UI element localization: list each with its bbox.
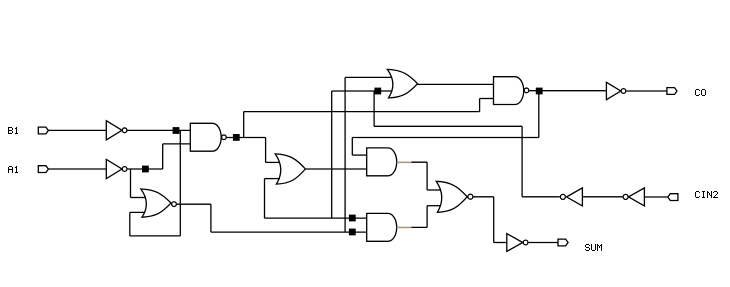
wire <box>48 129 106 131</box>
node SUM label <box>585 244 602 251</box>
junction (U3 output net) <box>233 134 240 141</box>
wire <box>528 242 558 244</box>
wire <box>374 125 522 127</box>
inverter U12 (CO) <box>606 82 625 99</box>
wire <box>480 98 494 100</box>
wire <box>411 226 427 228</box>
wire <box>131 197 147 199</box>
wire <box>473 196 493 198</box>
wire <box>494 242 507 244</box>
wire <box>266 161 280 163</box>
nor gate U4 <box>141 189 177 217</box>
wire <box>227 137 266 139</box>
wire <box>427 205 442 207</box>
wire <box>426 162 428 190</box>
wire <box>179 130 181 236</box>
wire <box>352 137 539 139</box>
wire <box>521 126 523 197</box>
wire <box>162 144 164 169</box>
node A1 label <box>8 166 18 173</box>
inverter U1 (B1) <box>106 121 127 140</box>
junction (U4 output net) <box>349 229 356 236</box>
wire <box>426 206 428 228</box>
node CIN2 label <box>695 191 718 198</box>
wire <box>127 129 190 131</box>
and gate U9 <box>367 213 397 241</box>
node B1 label <box>8 127 18 134</box>
wire <box>244 111 480 113</box>
input pin CIN2 <box>668 194 678 201</box>
wire <box>352 154 366 156</box>
junction (CIN2 net) <box>349 215 356 222</box>
wire <box>305 168 366 170</box>
wire <box>163 143 191 145</box>
wire <box>265 178 281 180</box>
wire <box>427 189 442 191</box>
wire <box>582 196 622 198</box>
junction (A1 net) <box>142 166 149 173</box>
inverter U14 (CIN2) <box>623 188 644 206</box>
wire <box>130 211 147 213</box>
wire <box>344 77 346 232</box>
junction (CIN2 net at U6 input) <box>374 88 381 95</box>
wire <box>522 196 560 198</box>
node CO label <box>695 89 706 96</box>
wire <box>129 212 131 236</box>
inverter U13 (CIN2) <box>560 188 582 206</box>
wire <box>210 204 212 232</box>
input pin B1 <box>38 127 48 134</box>
junction (B1 net) <box>173 127 180 134</box>
junction (U7 output net) <box>536 88 543 95</box>
wire <box>265 217 367 219</box>
wire <box>479 99 481 112</box>
wire <box>529 90 606 92</box>
wire <box>127 168 162 170</box>
wire <box>351 138 353 156</box>
wire <box>345 76 392 78</box>
wire <box>48 168 106 170</box>
or gate U6 <box>387 69 417 98</box>
pin stub (U9 output) <box>397 227 412 229</box>
wire <box>626 90 667 92</box>
or gate U5 <box>275 154 305 184</box>
wire <box>130 235 181 237</box>
wire <box>243 112 245 138</box>
output pin CO <box>667 88 677 95</box>
wire <box>211 231 367 233</box>
wire <box>177 203 211 205</box>
wire <box>130 169 132 198</box>
wire <box>265 138 267 163</box>
wire <box>373 91 375 126</box>
wire <box>264 179 266 219</box>
inverter U11 (SUM) <box>507 234 528 252</box>
nand gate U3 <box>190 123 226 151</box>
wire <box>644 196 667 198</box>
nand gate U7 <box>494 77 529 105</box>
output pin SUM <box>558 239 568 246</box>
and gate U8 <box>367 148 397 176</box>
pin stub (U8 output) <box>397 162 412 164</box>
nor gate U10 <box>436 181 473 212</box>
wire <box>493 197 495 243</box>
wire <box>418 83 494 85</box>
inverter U2 (A1) <box>106 159 127 178</box>
wire <box>332 90 393 92</box>
wire <box>538 91 540 138</box>
input pin A1 <box>38 166 48 173</box>
wire <box>411 161 427 163</box>
wire <box>331 91 333 218</box>
